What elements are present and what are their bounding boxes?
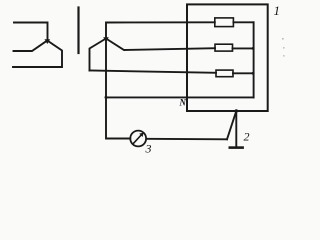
sensor junction arrow	[45, 39, 51, 44]
junction dot bottom	[252, 72, 255, 75]
switch terminal bar	[230, 146, 243, 149]
svg-text:3: 3	[145, 142, 152, 156]
galvanometer 3 circle	[130, 131, 146, 147]
wire down to meter	[106, 39, 130, 139]
wire R top to bus	[233, 21, 253, 23]
wire node N	[106, 96, 254, 98]
line junction arrow	[103, 37, 109, 42]
galvanometer needle	[134, 135, 141, 143]
switch blade	[227, 111, 236, 139]
switch post wire	[235, 111, 237, 147]
bridge unit 1 rectangle	[187, 4, 268, 111]
node N junction dot	[105, 96, 108, 99]
scan speck 2	[283, 47, 285, 49]
wire line 3	[90, 71, 217, 73]
resistor R middle	[215, 44, 233, 51]
galvanometer needle arrowhead	[139, 133, 143, 137]
sensor lead wire middle	[14, 41, 48, 52]
scan speck 1	[282, 38, 284, 40]
wire R bottom to bus	[233, 72, 254, 74]
switch junction dot	[235, 109, 238, 112]
junction dot middle	[252, 47, 255, 50]
bus wire	[253, 22, 255, 97]
wire R middle to bus	[233, 47, 254, 49]
panel boundary bar	[77, 8, 79, 54]
svg-text:1: 1	[274, 3, 281, 18]
resistor R bottom	[216, 70, 233, 77]
resistor R top	[215, 18, 234, 27]
wire branch to line 3	[90, 39, 107, 71]
sensor lead wire top	[14, 23, 48, 40]
wire line 1 top	[106, 22, 215, 38]
sensor lead wire bottom	[13, 41, 62, 68]
scan speck 3	[283, 55, 285, 57]
wire meter to switch	[146, 138, 227, 141]
svg-text:N: N	[179, 98, 187, 108]
svg-text:2: 2	[244, 130, 250, 144]
wire line 2	[106, 39, 215, 51]
